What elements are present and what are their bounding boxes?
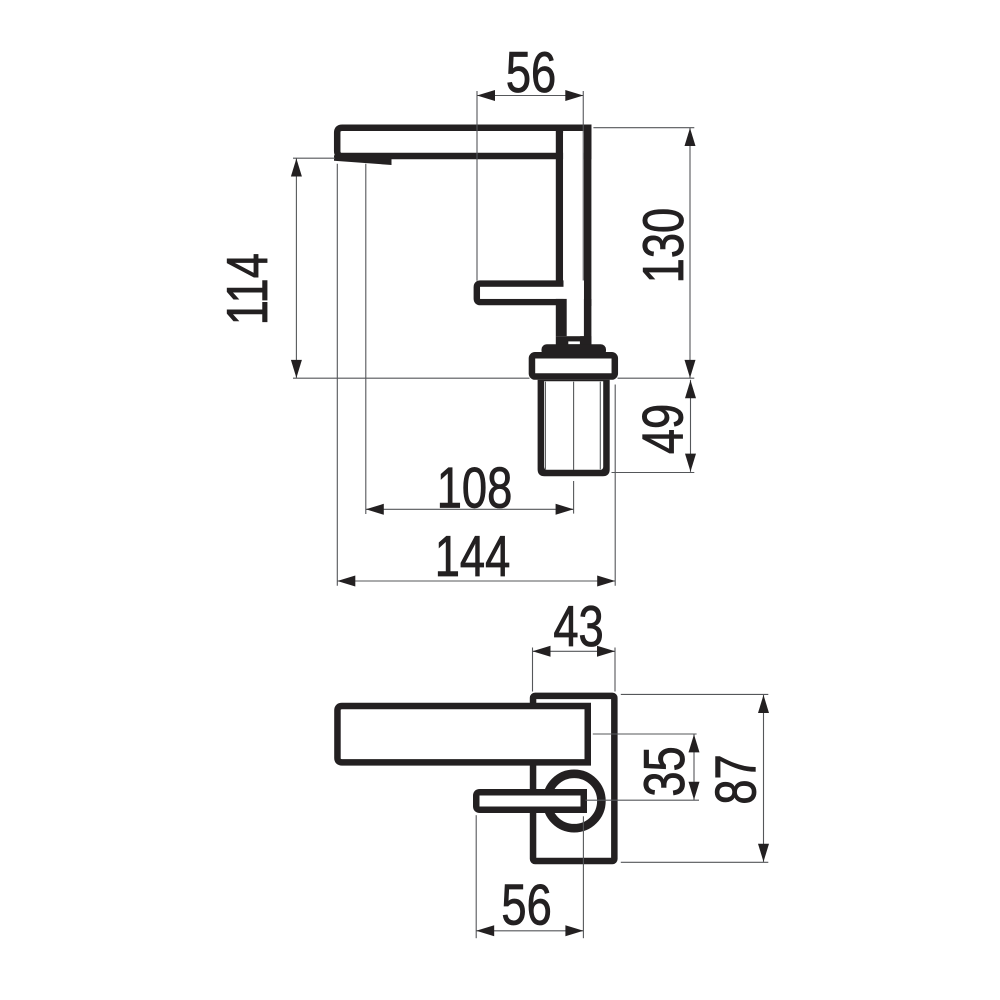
dim 56 top: label: [506, 40, 556, 104]
svg-text:114: 114: [215, 253, 279, 325]
dim 144: right extension line: [614, 385, 616, 586]
threaded shank: [538, 380, 610, 476]
dim 87: dimension line: [758, 694, 769, 862]
dim 49: label: [630, 404, 694, 454]
spout body outline: [337, 128, 588, 156]
dim 35: dimension line: [689, 734, 700, 800]
dim 49: dimension line: [685, 380, 696, 472]
dim 56 bottom: label: [501, 872, 551, 936]
dim 130: label: [631, 208, 695, 284]
shank centre line: [573, 382, 575, 470]
centre line below shank: [573, 481, 575, 514]
base escutcheon: [532, 355, 615, 376]
lever joint bar: [556, 299, 567, 336]
dim 108: label: [437, 456, 513, 520]
column bottom strip: [556, 336, 592, 345]
dim 108: dimension line: [366, 504, 574, 515]
body plate outline: [533, 696, 614, 861]
svg-text:35: 35: [632, 746, 696, 796]
aerator lip wedge: [334, 155, 392, 165]
svg-text:43: 43: [553, 594, 603, 658]
dim 43: dimension line: [533, 646, 616, 657]
handle lever outline: [477, 284, 579, 302]
dim 114: label: [215, 253, 279, 325]
dim 56 bottom: dimension line: [476, 925, 583, 936]
dim 35: extension lines: [586, 734, 700, 800]
dim 87: extension lines: [621, 694, 769, 862]
dim 87: label: [703, 754, 767, 804]
dim 144: label: [435, 524, 511, 588]
dim 114: dimension line: [291, 158, 302, 378]
svg-text:49: 49: [630, 404, 694, 454]
cartridge circle: [547, 774, 601, 828]
dim 144: dimension line: [337, 576, 615, 587]
svg-text:108: 108: [437, 456, 513, 520]
lever plan outline: [476, 792, 584, 810]
joint notch white line: [568, 341, 580, 344]
dim 56 bottom: extension lines: [476, 815, 583, 938]
dim 43: label: [553, 594, 603, 658]
svg-text:130: 130: [631, 208, 695, 284]
dim 49: extension line bottom: [612, 472, 695, 474]
dim 56 top: extension lines: [477, 91, 583, 281]
dim 56 top: dimension line: [477, 90, 583, 101]
svg-text:56: 56: [501, 872, 551, 936]
body column inner slot: [563, 133, 584, 336]
countertop line left: [293, 377, 530, 379]
body column left bar: [556, 127, 563, 281]
dim 144: left extension line: [336, 164, 338, 586]
body column right bar: [580, 125, 591, 346]
countertop line right: [618, 377, 695, 379]
svg-text:144: 144: [435, 524, 511, 588]
shank inner edge line right: [599, 382, 601, 470]
shank inner edge line left: [544, 382, 546, 470]
svg-text:87: 87: [703, 754, 767, 804]
flange: [545, 347, 603, 353]
spout plan outline: [337, 706, 587, 762]
dim 108: left extension line: [365, 164, 367, 514]
dim 35: label: [632, 746, 696, 796]
dim 114: extension line: [293, 157, 335, 159]
dim 43: extension lines: [533, 648, 616, 692]
svg-text:56: 56: [506, 40, 556, 104]
dim 130: extension line: [593, 127, 694, 129]
dim 130: dimension line: [685, 128, 696, 379]
